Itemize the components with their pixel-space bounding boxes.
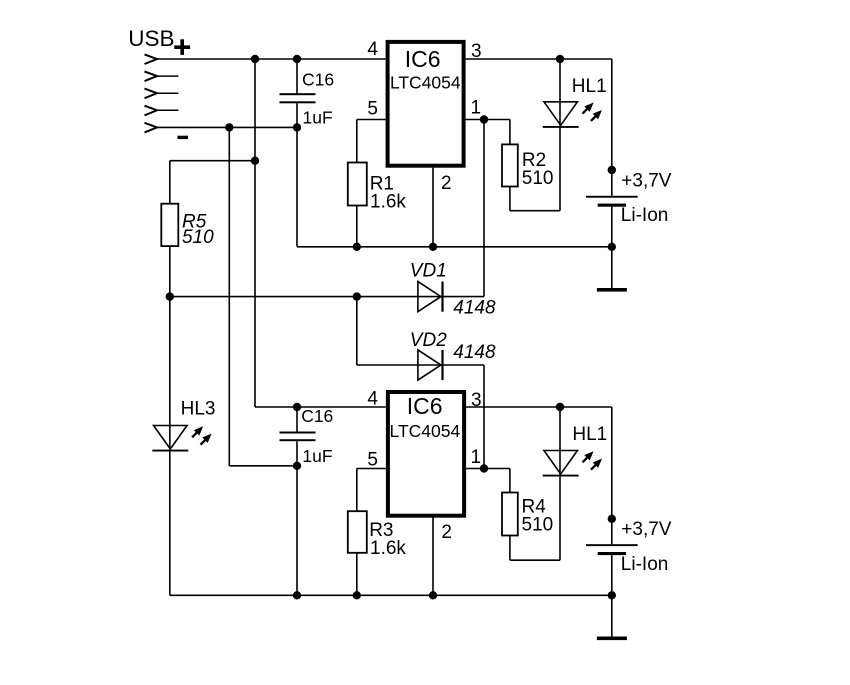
svg-text:HL1: HL1 [572,76,607,97]
svg-text:3: 3 [471,390,482,411]
svg-text:C16: C16 [302,69,334,89]
svg-text:5: 5 [367,450,378,471]
svg-text:USB: USB [128,26,174,51]
svg-text:2: 2 [441,173,452,194]
svg-text:4: 4 [367,39,378,60]
svg-text:1.6k: 1.6k [370,191,406,212]
svg-text:VD2: VD2 [410,330,447,351]
svg-text:4148: 4148 [453,297,496,318]
svg-text:LTC4054: LTC4054 [390,421,461,441]
svg-text:+3,7V: +3,7V [621,170,672,191]
svg-text:510: 510 [522,515,554,536]
svg-text:1uF: 1uF [303,107,333,127]
svg-text:Li-Ion: Li-Ion [621,554,669,575]
svg-text:3: 3 [471,41,482,62]
svg-text:HL1: HL1 [572,424,607,445]
svg-text:2: 2 [441,522,452,543]
svg-text:4: 4 [367,389,378,410]
svg-text:1: 1 [471,447,482,468]
svg-text:510: 510 [182,227,214,248]
svg-text:510: 510 [522,168,554,189]
svg-text:Li-Ion: Li-Ion [621,205,669,226]
svg-text:5: 5 [367,99,378,120]
svg-text:+3,7V: +3,7V [621,519,672,540]
svg-text:IC6: IC6 [407,393,443,419]
svg-text:1.6k: 1.6k [370,538,406,559]
svg-text:1uF: 1uF [302,446,332,466]
svg-text:VD1: VD1 [410,261,447,282]
svg-text:4148: 4148 [453,342,496,363]
svg-text:IC6: IC6 [405,46,441,72]
svg-text:1: 1 [471,98,482,119]
svg-text:C16: C16 [301,406,333,426]
svg-text:LTC4054: LTC4054 [390,73,461,93]
svg-text:HL3: HL3 [181,399,216,420]
